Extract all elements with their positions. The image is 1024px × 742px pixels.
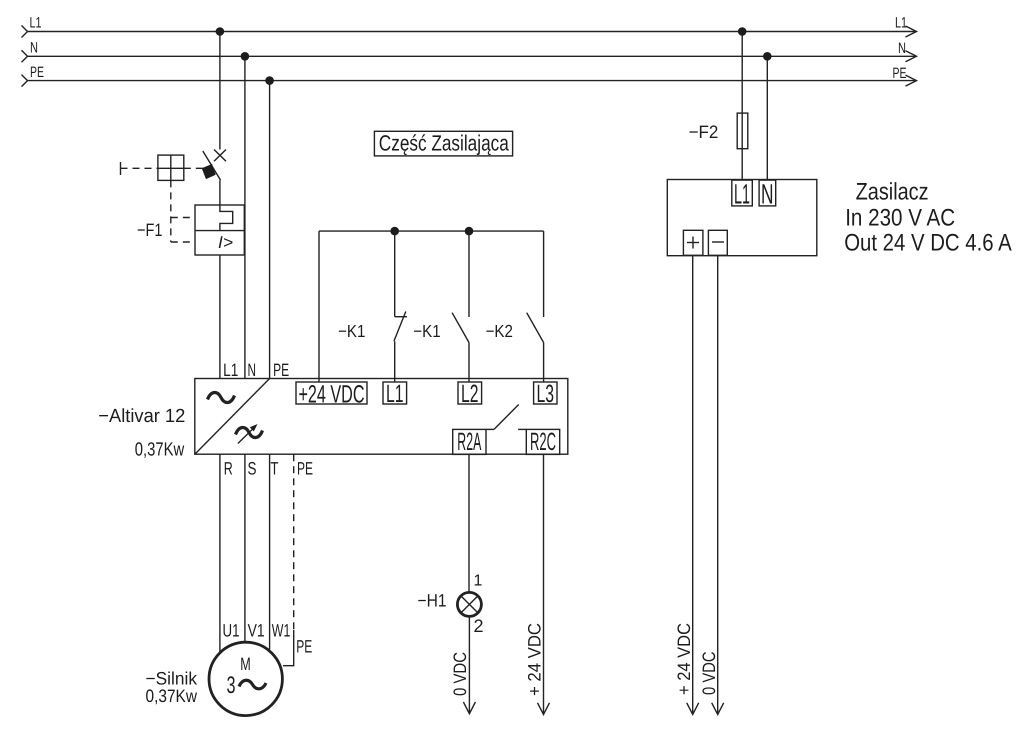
motor phase tilde [239,680,266,689]
node L1 fuse junction [738,27,747,36]
svg-text:W1: W1 [272,621,291,641]
supply terminal N [759,179,776,210]
wire L1 drop to breaker [219,32,221,150]
node L1 junction [216,27,225,36]
drive AC symbol [208,392,235,402]
wire PE dashed to motor [283,454,294,666]
svg-text:−K1: −K1 [338,321,365,341]
dashed link to magnetic [171,241,195,243]
svg-text:N: N [248,360,257,380]
lamp H1 [457,592,481,616]
dashed link mechanism to lever [184,167,204,169]
node PE junction [265,76,274,85]
breaker F1 lever [203,151,221,180]
dashed link mechanism down [170,180,172,242]
svg-text:−F1: −F1 [137,220,162,240]
contact K2 NO [527,231,544,382]
node bus K2 [465,227,474,236]
breaker F1 mechanism box [158,155,184,180]
dashed link T to mechanism [121,167,158,169]
contact K1 NO [452,231,469,382]
rail PE [22,75,917,87]
drive diagonal [195,379,270,455]
svg-text:S: S [248,459,257,479]
rail L1 [22,26,917,38]
wire F1 to Altivar L1 [219,255,221,379]
svg-text:Część Zasilająca: Część Zasilająca [379,131,510,156]
wire N drop to Altivar [244,56,246,378]
terminal L1 [383,380,407,408]
wire T to motor [269,454,271,649]
wire supply minus output [712,256,724,715]
node N junction [241,52,250,61]
svg-text:−Altivar 12: −Altivar 12 [98,406,185,427]
wire bus to +24VDC terminal [318,231,320,382]
terminal R2C [526,428,559,456]
svg-text:I>: I> [218,233,233,252]
wire R to motor [219,454,221,652]
wire 24V bus [319,230,544,232]
svg-text:N: N [898,40,906,57]
power supply U2 box [667,180,817,256]
contact K1 NC [394,231,407,382]
svg-text:V1: V1 [248,621,265,641]
svg-text:0,37Kw: 0,37Kw [146,686,198,706]
svg-text:R2A: R2A [457,428,481,456]
svg-text:0 VDC: 0 VDC [450,652,470,696]
svg-text:T: T [271,459,279,479]
svg-text:PE: PE [297,459,313,479]
svg-text:L2: L2 [461,380,479,408]
svg-text:Out 24 V DC 4.6 A: Out 24 V DC 4.6 A [844,229,1012,256]
drive variable frequency symbol [236,424,263,444]
svg-text:0,37Kw: 0,37Kw [135,440,185,461]
svg-text:−H1: −H1 [418,591,447,611]
svg-text:L1: L1 [30,15,42,32]
motor M1 circle [209,642,282,715]
svg-text:R2C: R2C [530,428,556,456]
svg-text:PE: PE [893,65,907,82]
breaker F1 box [195,205,244,255]
svg-text:L1: L1 [734,179,750,210]
terminal L2 [458,380,482,408]
svg-text:0 VDC: 0 VDC [699,651,719,695]
svg-text:3: 3 [227,672,236,699]
wire lamp to 0VDC arrow [463,617,475,713]
svg-text:N: N [761,179,774,210]
node bus K1 [390,227,399,236]
svg-text:PE: PE [296,637,312,657]
breaker F1 contact cross [214,150,226,162]
wire N to supply [766,56,768,180]
svg-text:PE: PE [273,360,289,380]
svg-text:L1: L1 [386,380,404,408]
drive U1 Altivar box [195,379,568,455]
svg-text:L3: L3 [537,380,555,408]
wire lever to F1 box [219,180,221,205]
svg-text:In 230 V AC: In 230 V AC [845,205,955,232]
supply terminal plus [683,230,703,255]
svg-text:−K2: −K2 [486,321,513,341]
title box [374,131,512,156]
svg-text:N: N [30,40,38,57]
svg-text:1: 1 [474,573,483,590]
supply terminal minus [708,230,727,255]
wire L1 to fuse [741,32,743,181]
dashed link to thermal [171,217,195,219]
svg-text:R: R [224,459,233,479]
manual operator T terminator [120,162,122,175]
svg-text:+ 24 VDC: + 24 VDC [525,623,545,696]
svg-text:U1: U1 [223,621,240,641]
wire R2A to lamp [468,454,470,591]
supply terminal L1 [732,179,753,210]
terminal R2A [453,428,486,456]
breaker F1 thermal element [220,205,233,231]
svg-text:PE: PE [30,64,44,81]
terminal L3 [534,380,557,408]
svg-text:−F2: −F2 [689,122,719,142]
terminal +24 VDC [296,381,367,409]
svg-text:+ 24 VDC: + 24 VDC [674,623,694,695]
svg-text:2: 2 [474,616,484,636]
wire supply plus output [687,256,699,715]
wire R2C to +24VDC arrow [538,454,550,714]
svg-text:−K1: −K1 [413,321,440,341]
fuse F2 [737,113,748,149]
rail N [22,50,917,62]
svg-text:L1: L1 [223,360,238,380]
svg-text:+24 VDC: +24 VDC [299,381,365,409]
wire PE drop to Altivar [269,81,271,379]
breaker F1 actuator pad [202,164,216,179]
svg-text:L1: L1 [895,15,907,32]
svg-text:Zasilacz: Zasilacz [856,178,929,205]
svg-text:M: M [240,654,251,674]
node N supply junction [763,52,772,61]
relay contact R2 [486,405,526,430]
wire S to motor [244,454,246,641]
